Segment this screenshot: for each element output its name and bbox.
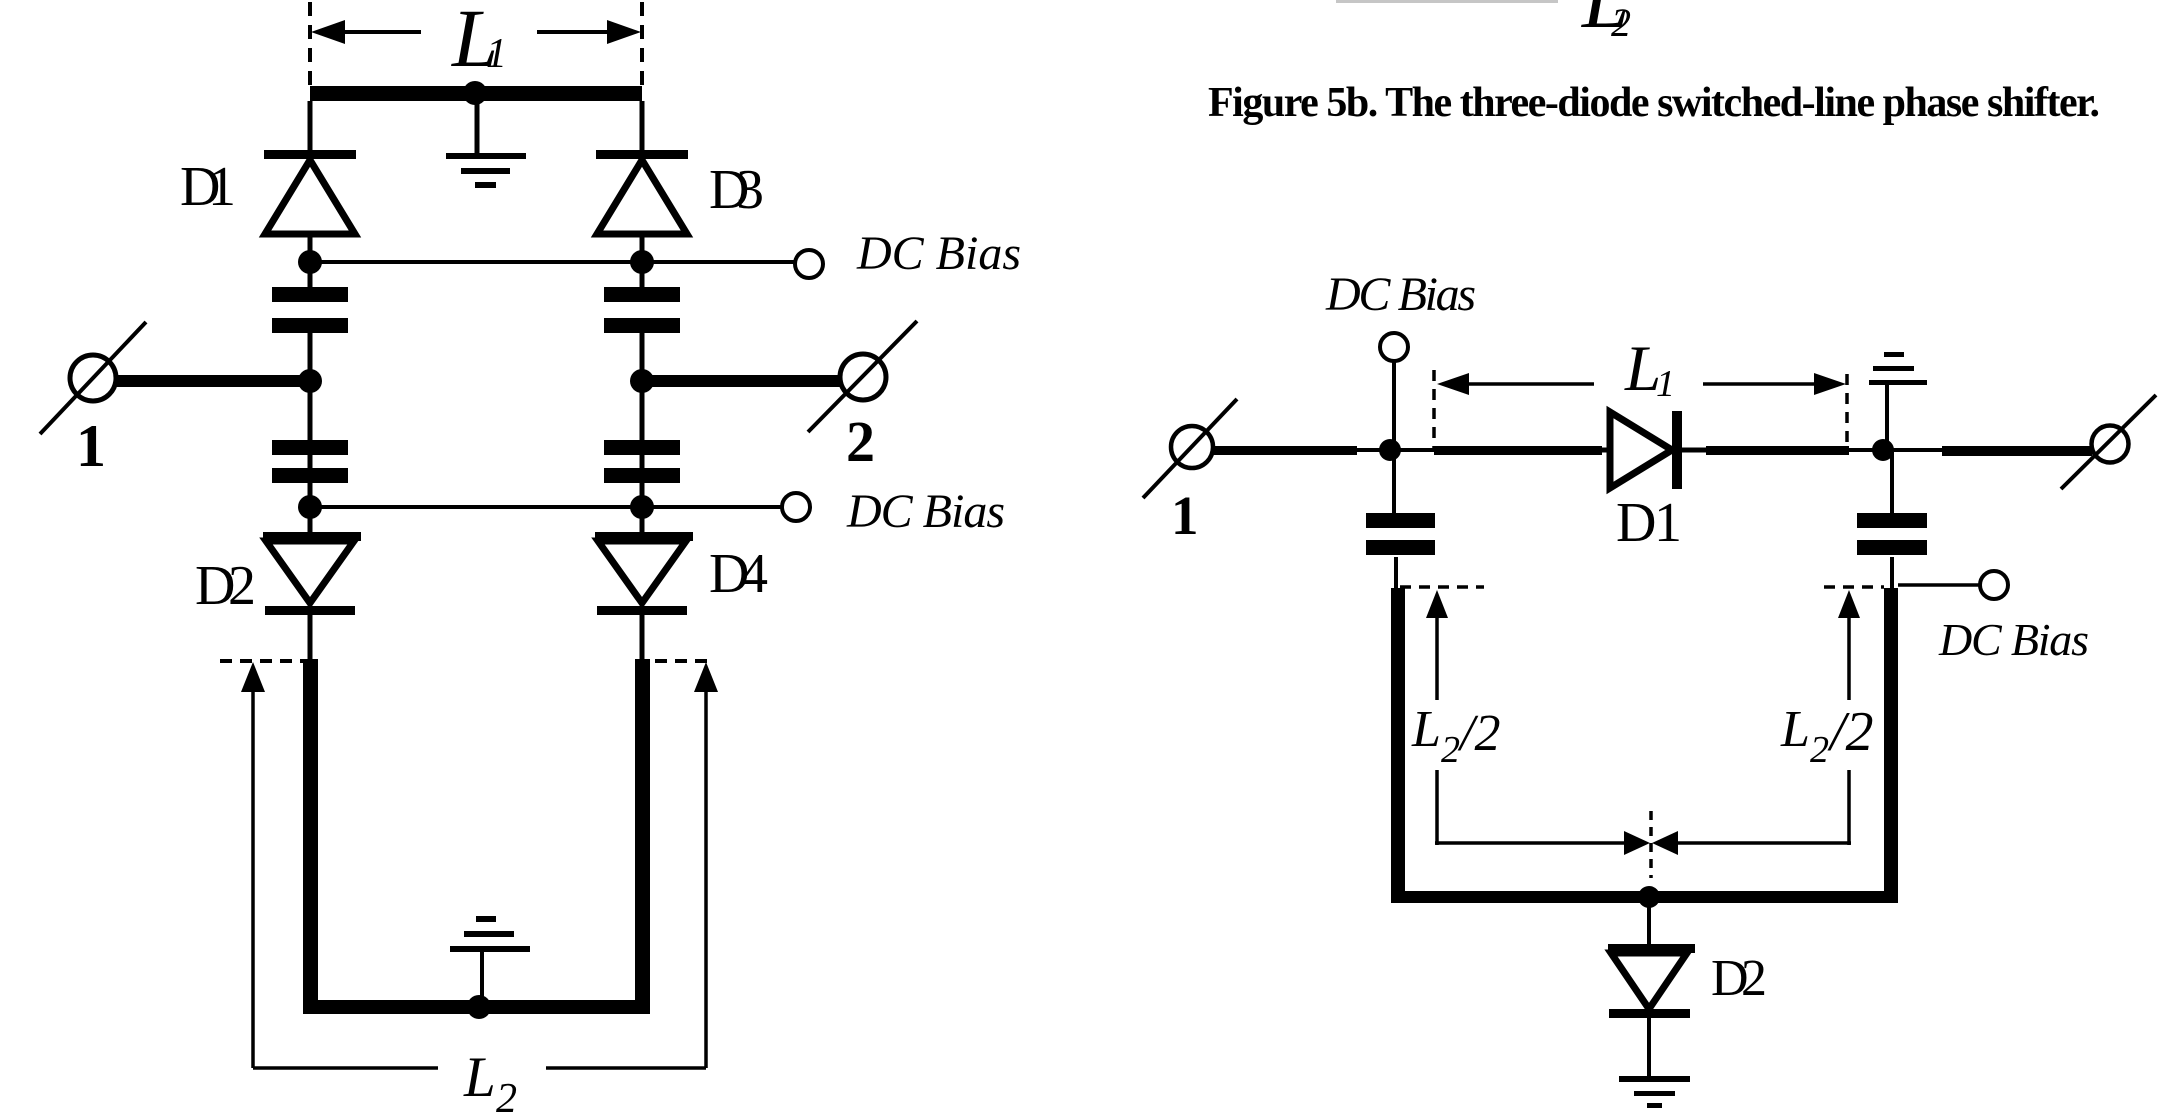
wire D2 cathode down to line L2 <box>308 615 313 662</box>
capacitor (blocking, upper left branch) <box>272 287 348 333</box>
svg-text:L: L <box>1780 701 1810 758</box>
svg-text:/2: /2 <box>1457 705 1500 762</box>
svg-text:2: 2 <box>846 409 875 474</box>
node: port-2 side junction <box>630 369 654 393</box>
port 2 terminal circle with slash <box>808 321 917 432</box>
svg-text:DC Bias: DC Bias <box>1938 614 2089 665</box>
dimension arrow up right (L2) <box>546 662 718 1068</box>
capacitor (blocking, right leg) <box>1857 513 1927 555</box>
wire input junction down to capacitor <box>1392 450 1396 513</box>
dimension arrow left (L1, right circuit) <box>1437 373 1594 395</box>
dashed mark at top of L2/2 (left) <box>1400 585 1484 589</box>
node: input junction <box>1379 439 1401 461</box>
svg-text:1: 1 <box>1171 485 1199 546</box>
svg-text:D4: D4 <box>709 543 768 605</box>
node: D1 anode junction <box>298 250 322 274</box>
transmission line L1 left segment (thick) <box>1434 446 1602 455</box>
svg-text:DC Bias: DC Bias <box>1325 268 1476 321</box>
dimension arrow right (L1, right circuit) <box>1703 373 1846 395</box>
remnant line of figure 5a (faint) <box>1336 0 1558 3</box>
label L1 (right circuit) <box>1624 333 1675 405</box>
dimension extension line (dashed) right of L1 <box>640 2 644 86</box>
transmission line L2/2 left vertical (thick) <box>1391 588 1405 903</box>
capacitor (blocking, left leg) <box>1366 513 1435 555</box>
node: port-1 side junction <box>298 369 322 393</box>
svg-text:DC Bias: DC Bias <box>856 227 1021 280</box>
wire capacitor to port-2 node <box>640 333 645 377</box>
diode D2 (cathode down) <box>263 532 361 615</box>
port 1 feed line (thick) <box>114 375 310 387</box>
svg-text:D1: D1 <box>180 156 236 218</box>
wire D2 cathode down to ground <box>1647 1018 1651 1078</box>
wire output junction down to capacitor <box>1890 450 1894 513</box>
wire junction down to D2 <box>1647 903 1651 946</box>
svg-text:2: 2 <box>1611 0 1631 45</box>
transmission line L2 right vertical (thick) <box>635 659 650 1014</box>
wire through input junction <box>1357 448 1440 452</box>
wire capacitor to L2/2 line (left) <box>1394 557 1398 592</box>
dashed mark at top of L2 (left) <box>220 659 304 663</box>
node: output junction <box>1872 439 1894 461</box>
svg-text:D2: D2 <box>195 555 256 617</box>
node: D4 anode junction <box>630 495 654 519</box>
transmission line L2/2 right vertical (thick) <box>1884 588 1898 903</box>
wire L2/2 right to DC bias terminal <box>1898 583 1980 587</box>
transmission line L1 right segment (thick) <box>1706 446 1849 455</box>
dimension arrow up (L2/2 right) <box>1652 590 1860 855</box>
transmission line L2 bottom (thick) <box>303 1000 650 1014</box>
dimension extension line (dashed) left of L1 <box>308 2 312 86</box>
diode D2 (cathode down, right circuit) <box>1608 944 1695 1018</box>
svg-text:1: 1 <box>76 413 106 479</box>
port 1 terminal circle with slash <box>1143 399 1237 498</box>
wire: lower DC bias line <box>310 505 781 509</box>
port 2 terminal circle with slash <box>2061 395 2156 489</box>
port 2 feed line (thick) <box>642 375 840 387</box>
svg-text:L: L <box>463 1046 496 1109</box>
diode D3 (cathode up) <box>596 150 688 234</box>
transmission line bottom (thick) <box>1391 891 1898 903</box>
svg-text:2: 2 <box>496 1076 517 1117</box>
port 1 feed line (thick) <box>1211 446 1357 455</box>
capacitor (blocking, upper right branch) <box>604 287 680 333</box>
port 1 terminal circle with slash <box>40 322 146 434</box>
wire: upper DC bias line <box>310 260 794 264</box>
node: D2 anode junction <box>298 495 322 519</box>
label L2/2 (right) <box>1780 701 1874 771</box>
terminal: upper DC Bias <box>795 250 823 278</box>
wire D1 anode down to capacitor <box>308 234 313 288</box>
svg-text:D3: D3 <box>709 159 764 221</box>
port 2 feed line (thick) <box>1942 446 2092 456</box>
diode D1 (cathode up) <box>264 150 356 234</box>
dashed mark at top of L2/2 (right) <box>1824 585 1884 589</box>
node: D3 anode junction <box>630 250 654 274</box>
terminal: top DC Bias <box>1380 333 1408 361</box>
svg-text:1: 1 <box>486 31 507 77</box>
svg-text:2: 2 <box>1441 729 1460 771</box>
node: junction on L2 bottom line <box>467 995 491 1019</box>
svg-text:D1: D1 <box>1616 492 1682 554</box>
wire D4 cathode down to line L2 <box>640 615 645 662</box>
capacitor (blocking, lower left branch) <box>272 440 348 483</box>
svg-text:/2: /2 <box>1827 701 1874 763</box>
dimension arrow up (L2/2 left) <box>1426 590 1650 855</box>
dimension extension line (dashed) left of L1 <box>1432 370 1436 449</box>
node: junction on L1 line <box>463 81 487 105</box>
svg-text:L: L <box>1411 701 1441 758</box>
ground (inverted, above output junction) <box>1869 352 1927 448</box>
label L1 (length of line L1) <box>451 0 507 84</box>
wire from L1 left end down to D1 <box>308 101 313 151</box>
dimension extension line (dashed) right of L1 <box>1845 374 1849 447</box>
wire through output junction <box>1849 448 1944 452</box>
svg-text:D2: D2 <box>1711 950 1767 1007</box>
wire capacitor to D2 <box>308 387 313 533</box>
capacitor (blocking, lower right branch) <box>604 440 680 483</box>
transmission line L2 left vertical (thick) <box>303 659 318 1014</box>
diode D1 (horizontal, cathode right) <box>1610 411 1708 489</box>
wire D3 anode down to capacitor <box>640 234 645 288</box>
label L2 (length of line L2) <box>463 1046 517 1117</box>
dimension arrow right (L1) <box>537 20 641 44</box>
terminal: right DC Bias <box>1980 571 2008 599</box>
svg-text:DC Bias: DC Bias <box>846 485 1005 538</box>
transmission line L1 (thick) <box>310 86 642 101</box>
wire capacitor to D4 <box>640 387 645 533</box>
wire DC bias terminal down to main line <box>1392 361 1396 450</box>
ground (bottom, right circuit) <box>1619 1076 1690 1108</box>
dashed centre mark between L2/2 arrows <box>1649 811 1653 878</box>
wire capacitor to port-1 node <box>308 333 313 377</box>
label L2/2 (left) <box>1411 701 1500 771</box>
svg-text:2: 2 <box>1810 729 1829 771</box>
terminal: lower DC Bias <box>782 493 810 521</box>
ground (top, from middle of L1) <box>446 101 526 188</box>
wire from L1 right end down to D3 <box>640 101 645 151</box>
dashed mark at top of L2 (right) <box>655 659 712 663</box>
svg-text:1: 1 <box>1656 363 1675 405</box>
ground (inverted, above L2 bottom line) <box>450 916 530 1002</box>
node: junction on bottom line (right circuit) <box>1638 886 1660 908</box>
dimension arrow left (L1) <box>311 20 421 44</box>
wire capacitor to L2/2 line (right) <box>1890 557 1894 592</box>
diode D4 (cathode down) <box>595 532 693 615</box>
dimension arrow up left (L2) <box>241 662 438 1068</box>
remnant label L2 of figure 5a (cropped) <box>1581 0 1631 46</box>
svg-text:Figure 5b. The three-diode swi: Figure 5b. The three-diode switched-line… <box>1208 80 2100 126</box>
